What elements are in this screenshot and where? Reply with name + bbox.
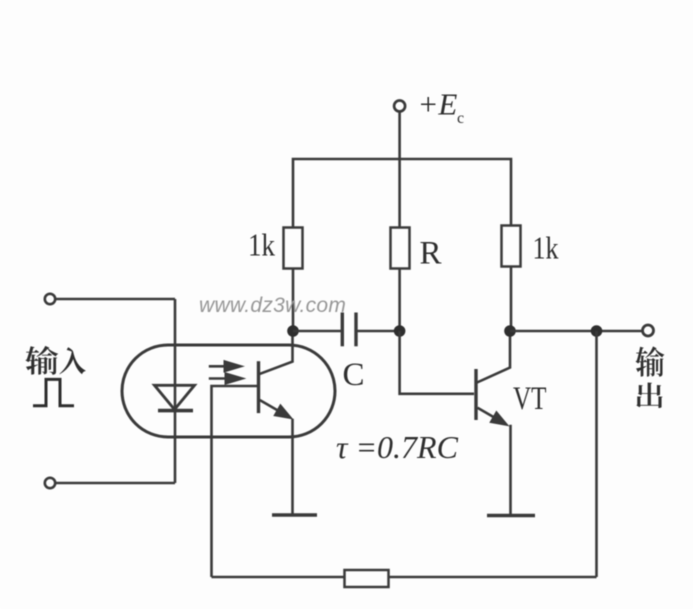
phototransistor Q1 collector	[259, 331, 293, 374]
power terminal +Ec	[394, 101, 405, 112]
svg-text:VT: VT	[513, 381, 547, 417]
wire node D down	[595, 331, 598, 577]
transistor VT collector	[477, 331, 510, 383]
svg-text:1k: 1k	[533, 230, 559, 266]
node D junction	[591, 325, 603, 337]
wire node B to VT base	[400, 331, 474, 394]
phototransistor Q1 emitter with arrow	[260, 400, 282, 413]
transistor VT base bar	[474, 369, 477, 420]
wire capacitor to node B	[356, 330, 400, 333]
capacitor C	[341, 313, 344, 347]
svg-text:τ =0.7RC: τ =0.7RC	[336, 429, 459, 465]
resistor R1 1k (left)	[284, 228, 303, 269]
input terminal top	[45, 294, 55, 304]
ground (phototransistor emitter)	[272, 513, 317, 516]
node A junction	[287, 325, 299, 337]
svg-text:C: C	[343, 357, 365, 393]
label 输出 (output)	[636, 346, 665, 376]
wire LED anode drop	[174, 299, 177, 483]
wire node C to output	[510, 330, 643, 333]
resistor R2 1k (right)	[502, 226, 521, 267]
wire R2 bottom	[510, 267, 513, 332]
wire VT emitter down	[509, 425, 512, 516]
wire bottom feedback rail	[212, 576, 597, 579]
ground (VT emitter)	[487, 514, 535, 517]
svg-text:c: c	[457, 110, 464, 127]
label 输入 (input)	[25, 346, 58, 375]
resistor R	[391, 228, 410, 269]
transistor VT emitter with arrow	[478, 408, 499, 420]
wire top rail	[293, 159, 511, 228]
svg-text:+E: +E	[418, 87, 458, 122]
optocoupler light arrow 1	[209, 365, 226, 368]
output terminal	[643, 325, 654, 336]
svg-text:www.dz3w.com: www.dz3w.com	[199, 294, 346, 317]
node B junction	[394, 325, 406, 337]
optocoupler body U1	[122, 345, 335, 437]
input pulse waveform symbol	[33, 379, 74, 405]
wire +Ec drop	[398, 111, 401, 227]
wire R bottom	[398, 269, 401, 332]
wire R1 bottom	[292, 269, 295, 332]
wire input top to LED anode	[55, 298, 175, 301]
svg-text:1k: 1k	[248, 227, 275, 263]
input terminal bottom	[45, 478, 55, 488]
LED D1	[155, 385, 195, 409]
node C junction	[504, 325, 516, 337]
svg-text:R: R	[420, 236, 442, 272]
wire photobase feedback	[212, 386, 259, 577]
wire input bottom to LED cathode	[55, 482, 175, 485]
resistor R3 (feedback)	[345, 570, 389, 587]
optocoupler light arrow 2	[209, 377, 227, 380]
phototransistor Q1 base bar	[257, 361, 260, 413]
wire node A to capacitor	[293, 330, 342, 333]
